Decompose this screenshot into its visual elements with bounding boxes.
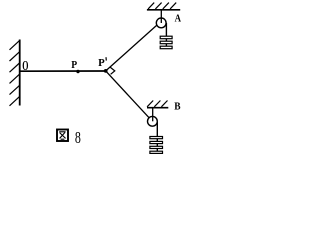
spring A: [160, 36, 172, 49]
rope P' to pulley A: [106, 25, 157, 71]
ceiling A: [147, 3, 180, 10]
svg-text:8: 8: [75, 128, 81, 147]
svg-text:P: P: [98, 58, 105, 69]
svg-text:A: A: [175, 14, 182, 25]
ceiling B: [147, 101, 168, 108]
caption glyph tu (figure): [57, 130, 68, 142]
svg-text:P: P: [71, 59, 77, 71]
wire O to P': [20, 70, 106, 72]
wall: [10, 40, 20, 106]
node P: [76, 70, 79, 73]
right-angle mark at P': [110, 67, 115, 74]
wire pulley B to spring B: [156, 122, 158, 151]
pulley B: [148, 108, 158, 126]
rope P' to pulley B: [106, 71, 149, 118]
svg-text:B: B: [174, 100, 180, 112]
node P': [104, 69, 108, 73]
pulley A: [156, 11, 166, 28]
spring B: [150, 137, 163, 154]
wire pulley A to spring A: [165, 23, 167, 47]
